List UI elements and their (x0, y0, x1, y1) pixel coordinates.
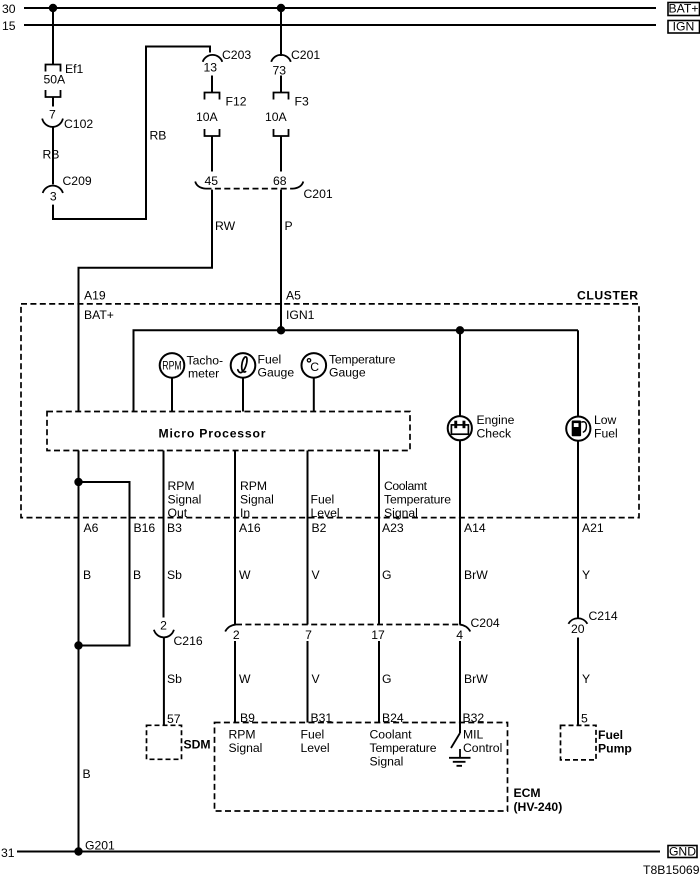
svg-text:Coolant: Coolant (370, 728, 413, 742)
svg-text:Out: Out (168, 506, 188, 520)
svg-text:B2: B2 (312, 521, 327, 535)
wire fuel gauge to micro processor (242, 378, 244, 412)
svg-text:BrW: BrW (464, 568, 488, 582)
svg-text:G: G (382, 568, 391, 582)
SDM box (147, 725, 182, 759)
svg-text:Signal: Signal (168, 493, 202, 507)
svg-text:Engine: Engine (477, 413, 515, 427)
svg-text:Coolamt: Coolamt (384, 479, 428, 493)
svg-text:C201: C201 (304, 187, 333, 201)
svg-text:20: 20 (571, 622, 585, 636)
svg-text:31: 31 (1, 846, 15, 860)
svg-text:Y: Y (582, 672, 590, 686)
svg-text:5: 5 (581, 712, 588, 726)
connector C204 in-line (225, 625, 470, 632)
svg-text:Level: Level (301, 741, 330, 755)
svg-text:Sb: Sb (167, 568, 182, 582)
svg-text:C203: C203 (222, 48, 251, 62)
connector C203 (203, 55, 223, 62)
wire C204-2 to ECM B9 (W) (234, 641, 236, 723)
wire B16 loop (79, 482, 130, 646)
svg-text:Fuel: Fuel (301, 728, 325, 742)
wire C216 to SDM pin 57 (Sb) (163, 638, 165, 726)
Micro Processor box (47, 412, 410, 451)
svg-text:T8B15069: T8B15069 (643, 863, 700, 877)
junction dot B16 loop top (74, 478, 82, 486)
svg-text:C204: C204 (471, 616, 500, 630)
svg-text:G201: G201 (85, 839, 115, 853)
temperature gauge (302, 353, 327, 378)
svg-text:13: 13 (204, 61, 218, 75)
svg-text:B: B (83, 767, 91, 781)
low fuel icon (572, 421, 587, 437)
fuel gauge (231, 353, 256, 378)
wire A14 to C204 (459, 440, 461, 624)
connector C102 (42, 119, 63, 127)
GND terminal box (668, 845, 697, 859)
svg-text:17: 17 (371, 628, 385, 642)
svg-text:73: 73 (273, 64, 287, 78)
svg-text:IGN1: IGN1 (286, 308, 315, 322)
fuse F12 (205, 93, 220, 137)
wire IGN1 to engine check lamp (459, 330, 461, 416)
svg-text:F12: F12 (226, 95, 247, 109)
svg-text:A19: A19 (84, 289, 106, 303)
svg-text:BrW: BrW (464, 672, 488, 686)
wire line30 to fuse Ef1 (52, 8, 54, 65)
ground MIL (449, 749, 471, 766)
svg-text:RW: RW (215, 219, 236, 233)
svg-text:V: V (312, 568, 321, 582)
svg-text:W: W (239, 568, 251, 582)
svg-text:10A: 10A (265, 110, 288, 124)
svg-text:Signal: Signal (229, 741, 263, 755)
wire C214-20 to fuel pump pin 5 (Y) (577, 638, 579, 726)
wire C201-73 to fuse F3 (280, 76, 282, 93)
svg-text:RPM: RPM (162, 358, 182, 372)
wire A21 to C214 (577, 441, 579, 618)
svg-text:V: V (312, 672, 321, 686)
svg-text:A6: A6 (84, 521, 99, 535)
junction dot A5 IGN1 (277, 326, 285, 334)
fuse Ef1 (46, 65, 61, 98)
svg-text:B24: B24 (382, 711, 404, 725)
temperature gauge symbol (307, 359, 310, 362)
wire tachometer to micro processor (171, 378, 173, 412)
svg-text:68: 68 (273, 174, 287, 188)
svg-text:IGN: IGN (673, 20, 695, 34)
svg-text:C102: C102 (64, 117, 93, 131)
svg-text:Signal: Signal (384, 506, 418, 520)
wire IGN1 to low fuel lamp (577, 330, 579, 416)
svg-text:A14: A14 (464, 521, 486, 535)
svg-text:Y: Y (582, 568, 590, 582)
wire C102 to C209 RB (52, 127, 54, 184)
connector C214 (568, 618, 587, 624)
junction dot B16 loop bottom (74, 641, 82, 649)
svg-text:C209: C209 (63, 174, 92, 188)
BAT+ terminal box (668, 2, 700, 16)
connector C216 (154, 630, 174, 638)
svg-text:Pump: Pump (598, 742, 632, 756)
svg-text:C201: C201 (291, 48, 320, 62)
wire F12 to C201 pin 45 (211, 136, 213, 172)
wire C201-45 to cluster A19 (RW) (79, 190, 213, 412)
junction dot engine check branch (456, 326, 464, 334)
svg-text:SDM: SDM (184, 738, 211, 752)
svg-text:C216: C216 (174, 634, 203, 648)
svg-text:In: In (240, 506, 250, 520)
svg-text:15: 15 (2, 19, 16, 33)
svg-text:B32: B32 (463, 711, 485, 725)
svg-text:meter: meter (188, 367, 219, 381)
svg-text:B3: B3 (167, 521, 182, 535)
svg-text:30: 30 (2, 2, 16, 16)
svg-text:B9: B9 (240, 711, 255, 725)
svg-text:Low: Low (594, 413, 617, 427)
wire F3 to C201 pin 68 (280, 136, 282, 172)
svg-text:MIL: MIL (463, 728, 484, 742)
svg-text:2: 2 (160, 619, 167, 633)
wire C203 pin13 to fuse F12 (211, 76, 213, 93)
svg-text:F3: F3 (295, 95, 309, 109)
svg-text:C: C (310, 360, 319, 374)
svg-text:45: 45 (205, 174, 219, 188)
svg-text:Fuel: Fuel (598, 728, 623, 742)
junction dot line30/C201-73 (277, 4, 285, 12)
IGN terminal box (668, 20, 700, 34)
svg-text:Temperature: Temperature (370, 741, 437, 755)
svg-text:A16: A16 (239, 521, 261, 535)
svg-text:C214: C214 (589, 609, 618, 623)
svg-text:Temperature: Temperature (384, 493, 451, 507)
svg-text:A23: A23 (382, 521, 404, 535)
svg-text:7: 7 (49, 108, 56, 122)
svg-text:RB: RB (43, 148, 60, 162)
connector C201 in-line (195, 182, 303, 189)
svg-text:Temperature: Temperature (329, 353, 396, 367)
connector C209 (43, 186, 63, 193)
bus line 15 (IGN) (24, 24, 656, 26)
svg-text:Fuel: Fuel (258, 353, 282, 367)
wire C204-7 to ECM B31 (V) (307, 641, 309, 723)
svg-text:A21: A21 (582, 521, 604, 535)
wire temperature gauge to micro processor (313, 378, 315, 412)
svg-text:B: B (133, 568, 141, 582)
junction dot G201 (74, 847, 82, 855)
svg-text:CLUSTER: CLUSTER (577, 289, 638, 303)
svg-text:RPM: RPM (168, 479, 195, 493)
svg-text:Tacho-: Tacho- (187, 354, 224, 368)
svg-text:Level: Level (311, 506, 340, 520)
svg-text:10A: 10A (196, 110, 219, 124)
engine check icon (451, 421, 468, 434)
wire B3 to C216 (163, 451, 165, 618)
connector C201 pin 73 (271, 55, 291, 62)
svg-text:BAT+: BAT+ (669, 2, 699, 16)
svg-text:(HV-240): (HV-240) (514, 800, 563, 814)
svg-text:B31: B31 (311, 711, 333, 725)
svg-text:RPM: RPM (240, 479, 267, 493)
svg-text:A5: A5 (286, 289, 301, 303)
svg-text:BAT+: BAT+ (84, 308, 114, 322)
bus line 31 (GND) (17, 851, 660, 853)
svg-text:4: 4 (456, 628, 463, 642)
svg-text:Gauge: Gauge (329, 366, 366, 380)
junction dot line30/Ef1 (49, 4, 57, 12)
svg-text:ECM: ECM (514, 786, 541, 800)
fuel gauge symbol (238, 357, 247, 373)
bus line 30 (BAT+) (24, 7, 656, 9)
wire IGN1 distribution (134, 330, 579, 411)
wire A6 column to G201 (78, 451, 80, 852)
svg-text:Check: Check (477, 427, 512, 441)
wire A23 to C204 (378, 451, 380, 625)
ECM box (215, 723, 508, 812)
svg-text:Control: Control (463, 741, 502, 755)
tachometer gauge (160, 353, 185, 378)
svg-text:57: 57 (167, 712, 181, 726)
fuse F3 (274, 93, 289, 137)
wire line30 to C201 pin 73 (280, 8, 282, 56)
wire C204-4 to ECM B32 (BrW) (459, 641, 461, 733)
svg-text:3: 3 (50, 189, 57, 203)
low fuel lamp (566, 417, 590, 441)
svg-text:7: 7 (305, 628, 312, 642)
wire B2 to C204 (307, 451, 309, 625)
svg-text:Signal: Signal (370, 755, 404, 769)
svg-text:RPM: RPM (229, 728, 256, 742)
svg-text:RB: RB (150, 129, 167, 143)
svg-text:Gauge: Gauge (258, 366, 295, 380)
wire C209 pin3 to C203 via RB riser (53, 47, 210, 220)
svg-text:GND: GND (669, 845, 696, 859)
wire C201-68 to cluster A5 (P) (280, 190, 282, 331)
wire fuse Ef1 to C102 pin 7 (52, 97, 54, 107)
svg-text:Fuel: Fuel (594, 427, 618, 441)
svg-text:Fuel: Fuel (311, 493, 335, 507)
svg-text:Signal: Signal (240, 493, 274, 507)
CLUSTER box (21, 304, 639, 518)
svg-text:Micro Processor: Micro Processor (159, 426, 266, 440)
svg-text:W: W (239, 672, 251, 686)
svg-text:B: B (83, 568, 91, 582)
wire C204-17 to ECM B24 (G) (378, 641, 380, 723)
wire A16 to C204 (234, 451, 236, 625)
svg-text:P: P (285, 219, 293, 233)
svg-text:Ef1: Ef1 (65, 62, 84, 76)
svg-text:2: 2 (233, 628, 240, 642)
MIL driver switch (451, 733, 460, 748)
svg-text:50A: 50A (44, 73, 67, 87)
Fuel Pump box (561, 725, 597, 760)
svg-text:G: G (382, 672, 391, 686)
svg-text:B16: B16 (134, 521, 156, 535)
engine check lamp (448, 416, 472, 440)
svg-text:Sb: Sb (167, 672, 182, 686)
